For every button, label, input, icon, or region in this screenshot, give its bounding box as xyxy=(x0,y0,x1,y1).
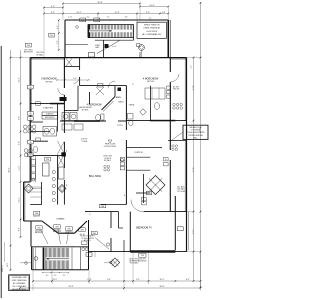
svg-text:30: 30 xyxy=(29,142,31,144)
svg-text:KBIKO: KBIKO xyxy=(118,102,124,104)
svg-text:3'-2: 3'-2 xyxy=(87,17,90,19)
svg-text:2X6: 2X6 xyxy=(27,45,30,47)
svg-text:2X6: 2X6 xyxy=(95,20,98,22)
svg-text:WILL: WILL xyxy=(193,138,197,140)
svg-text:$: $ xyxy=(133,84,134,86)
svg-text:17'-8": 17'-8" xyxy=(87,279,92,281)
svg-text:11'-6": 11'-6" xyxy=(19,165,21,170)
svg-text:AB HEIGHT: AB HEIGHT xyxy=(24,51,33,54)
svg-text:14'-2": 14'-2" xyxy=(76,12,81,14)
svg-text:2X6 OPTIO: 2X6 OPTIO xyxy=(65,231,74,233)
svg-text:2X6 OPT: 2X6 OPT xyxy=(139,259,146,261)
svg-text:21'-2": 21'-2" xyxy=(192,167,194,172)
svg-text:29'-8": 29'-8" xyxy=(68,286,73,288)
svg-text:12'-6": 12'-6" xyxy=(114,12,119,14)
svg-text:BIG LIVING: BIG LIVING xyxy=(89,176,101,178)
svg-text:2X6: 2X6 xyxy=(67,228,70,230)
svg-text:DINING: DINING xyxy=(57,218,65,220)
svg-text:2868 DR: 2868 DR xyxy=(173,89,180,91)
svg-text:5 MORCHIOW: 5 MORCHIOW xyxy=(41,79,57,81)
svg-text:30: 30 xyxy=(29,113,31,115)
svg-text:5'-6": 5'-6" xyxy=(57,40,59,44)
svg-text:$: $ xyxy=(90,214,91,216)
svg-text:$: $ xyxy=(124,195,125,197)
svg-text:2X6: 2X6 xyxy=(101,206,104,208)
svg-text:4'-8: 4'-8 xyxy=(125,17,128,19)
svg-text:OPT HERE: OPT HERE xyxy=(177,191,185,193)
svg-text:9'-8": 9'-8" xyxy=(19,116,21,120)
svg-text:11'-2": 11'-2" xyxy=(192,230,194,235)
svg-text:6'-2": 6'-2" xyxy=(51,6,55,8)
svg-text:8'-2": 8'-2" xyxy=(186,279,190,281)
svg-text:SET 2: SET 2 xyxy=(7,263,9,267)
svg-text:10'-2": 10'-2" xyxy=(159,279,164,281)
svg-text:30: 30 xyxy=(165,159,167,161)
svg-text:BELLMNTN WELD: BELLMNTN WELD xyxy=(12,289,26,291)
svg-text:LINEN TRIM IN AT: LINEN TRIM IN AT xyxy=(143,27,160,30)
svg-text:13'-4": 13'-4" xyxy=(19,197,21,202)
svg-text:SNM 17: SNM 17 xyxy=(2,266,4,273)
svg-text:BEDROOM TV: BEDROOM TV xyxy=(136,228,152,230)
svg-text:30: 30 xyxy=(29,87,31,89)
svg-text:SHELF TRIM ON: SHELF TRIM ON xyxy=(144,25,160,27)
svg-text:4 BATH RM: 4 BATH RM xyxy=(43,107,53,110)
svg-text:8'-2": 8'-2" xyxy=(51,12,55,14)
svg-text:OF MICH BITES: OF MICH BITES xyxy=(104,146,117,148)
svg-text:30: 30 xyxy=(29,155,31,157)
svg-text:2X6: 2X6 xyxy=(93,233,96,235)
svg-text:BATH: BATH xyxy=(116,96,122,99)
svg-text:2X6: 2X6 xyxy=(46,159,49,161)
svg-text:9'-2": 9'-2" xyxy=(189,65,191,69)
svg-text:9'-6": 9'-6" xyxy=(146,12,150,14)
svg-text:VENTA: VENTA xyxy=(129,104,135,107)
svg-text:CL/PR 16: CL/PR 16 xyxy=(134,152,142,154)
svg-text:2X6: 2X6 xyxy=(80,229,83,231)
svg-text:HALL: HALL xyxy=(95,46,99,49)
svg-text:OF MICH: OF MICH xyxy=(104,158,112,160)
svg-text:2X6 OPT: 2X6 OPT xyxy=(33,216,40,218)
svg-text:AT WALL: AT WALL xyxy=(84,239,91,242)
svg-text:$: $ xyxy=(66,151,67,153)
svg-text:2X6: 2X6 xyxy=(55,226,58,228)
svg-text:2X6: 2X6 xyxy=(81,20,84,22)
svg-text:30: 30 xyxy=(29,118,31,120)
svg-text:MOTUS: MOTUS xyxy=(147,81,155,83)
svg-text:NOTUS: NOTUS xyxy=(82,109,89,111)
svg-text:D6: D6 xyxy=(50,35,52,37)
svg-text:BROADLOOM: BROADLOOM xyxy=(190,126,202,129)
svg-text:3'-2: 3'-2 xyxy=(63,275,66,277)
svg-text:4'-2": 4'-2" xyxy=(57,25,59,29)
svg-text:3'-2: 3'-2 xyxy=(54,275,57,277)
svg-text:2X6: 2X6 xyxy=(37,227,40,229)
svg-text:AT WALL: AT WALL xyxy=(36,53,43,56)
svg-text:TRICENTIUM BIG: TRICENTIUM BIG xyxy=(188,135,203,137)
svg-text:12'-2": 12'-2" xyxy=(19,77,21,82)
svg-text:TOTO: TOTO xyxy=(117,125,123,127)
svg-text:8'-6": 8'-6" xyxy=(19,227,21,231)
svg-text:$: $ xyxy=(66,185,67,187)
svg-text:4'-10: 4'-10 xyxy=(68,17,72,19)
svg-text:2X6 OPTIO: 2X6 OPTIO xyxy=(53,229,62,231)
svg-text:2X6: 2X6 xyxy=(35,213,38,215)
svg-text:2'-6": 2'-6" xyxy=(136,279,140,281)
svg-text:2x4 STUDS: 2x4 STUDS xyxy=(146,31,157,33)
svg-text:2X6: 2X6 xyxy=(141,255,144,257)
svg-text:ALL OVERHEAD DR: ALL OVERHEAD DR xyxy=(142,33,161,36)
svg-text:MOTUS: MOTUS xyxy=(46,81,54,83)
svg-text:36'-6": 36'-6" xyxy=(159,286,165,288)
svg-text:5'-8": 5'-8" xyxy=(107,279,111,281)
svg-text:2X6 OPTIO: 2X6 OPTIO xyxy=(35,230,44,232)
svg-text:J STONES: J STONES xyxy=(191,130,201,132)
svg-text:18'-6": 18'-6" xyxy=(192,85,194,90)
svg-text:6'-8": 6'-8" xyxy=(19,141,21,145)
svg-text:3'-2: 3'-2 xyxy=(46,275,49,277)
svg-text:MIRRORBOX: MIRRORBOX xyxy=(45,117,55,119)
svg-text:58'-6": 58'-6" xyxy=(9,167,11,173)
svg-text:4 MORCHIOW: 4 MORCHIOW xyxy=(143,78,159,80)
svg-text:/ TODA: / TODA xyxy=(81,140,88,143)
svg-text:20'-8": 20'-8" xyxy=(149,5,155,7)
svg-text:28'-2": 28'-2" xyxy=(53,279,58,281)
svg-text:8'-4": 8'-4" xyxy=(73,78,77,80)
svg-text:5'-6: 5'-6 xyxy=(107,17,110,19)
svg-text:FLUSH 4 MULRIBUTE: FLUSH 4 MULRIBUTE xyxy=(186,132,205,134)
svg-text:4'-10: 4'-10 xyxy=(112,46,116,48)
svg-text:5'-8": 5'-8" xyxy=(162,12,166,14)
svg-text:39'-8": 39'-8" xyxy=(97,2,103,4)
